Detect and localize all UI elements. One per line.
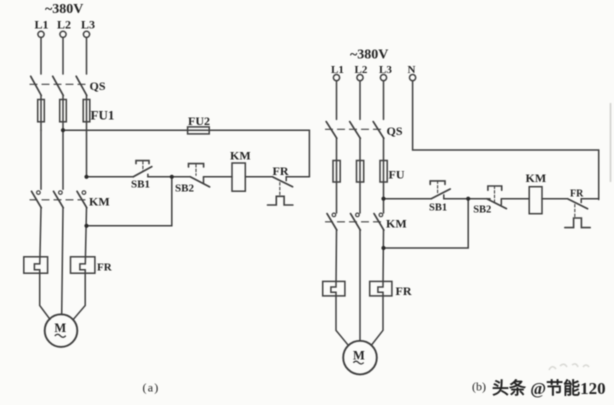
svg-text:L2: L2 — [57, 18, 71, 32]
svg-text:KM: KM — [230, 148, 251, 162]
svg-text:L1: L1 — [331, 64, 344, 76]
svg-text:SB1: SB1 — [131, 179, 150, 191]
svg-text:FR: FR — [570, 189, 584, 200]
svg-text:~380V: ~380V — [350, 48, 388, 63]
svg-text:L1: L1 — [35, 18, 49, 32]
svg-text:~380V: ~380V — [45, 2, 83, 17]
svg-text:SB2: SB2 — [175, 183, 194, 195]
svg-text:KM: KM — [89, 195, 110, 209]
svg-text:QS: QS — [90, 79, 106, 93]
svg-text:M: M — [54, 321, 66, 335]
svg-text:N: N — [408, 64, 416, 76]
svg-text:FR: FR — [273, 164, 289, 178]
svg-text:头条 @节能120: 头条 @节能120 — [492, 378, 606, 398]
svg-text:FR: FR — [396, 284, 412, 298]
svg-text:SB2: SB2 — [473, 204, 491, 215]
svg-text:KM: KM — [526, 171, 547, 185]
svg-text:L2: L2 — [355, 64, 368, 76]
svg-text:SB1: SB1 — [429, 203, 447, 214]
svg-text:FU: FU — [389, 168, 405, 182]
svg-text:(b): (b) — [472, 380, 486, 394]
svg-text:QS: QS — [387, 124, 403, 138]
svg-text:FU1: FU1 — [91, 108, 115, 123]
svg-text:FR: FR — [97, 262, 113, 274]
svg-text:M: M — [353, 348, 365, 362]
svg-text:L3: L3 — [379, 64, 392, 76]
svg-text:FU2: FU2 — [188, 114, 210, 128]
svg-text:L3: L3 — [81, 18, 95, 32]
svg-text:(a): (a) — [143, 380, 160, 394]
svg-text:KM: KM — [386, 217, 407, 231]
